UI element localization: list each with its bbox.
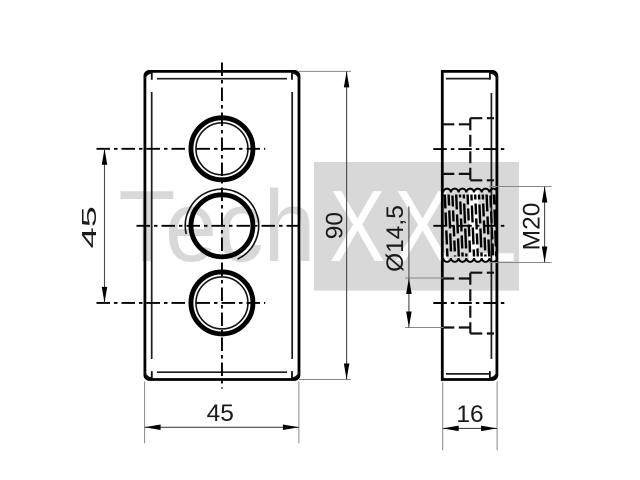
dim M20 extension bottom bbox=[489, 262, 552, 264]
side view corner relief top-right bbox=[490, 73, 497, 80]
front view plate outline bbox=[145, 71, 299, 379]
dim 90 extension top bbox=[299, 70, 351, 72]
dim 14.5 leader line bbox=[408, 207, 410, 328]
dim 90 line bbox=[346, 71, 348, 379]
hole 3 thick circle bbox=[191, 272, 253, 334]
hole 2 thick circle bbox=[191, 195, 253, 257]
side view hole 3 centerline bbox=[433, 302, 506, 304]
hole 2 horizontal centerline bbox=[137, 225, 302, 227]
dim 45 left arrow up bbox=[102, 149, 108, 165]
thread scallop top bbox=[443, 189, 497, 193]
hole 1 thick circle bbox=[191, 118, 253, 180]
front view corner relief bottom-right bbox=[292, 371, 299, 378]
front view corner relief top-left bbox=[145, 73, 152, 80]
thread scallop bottom bbox=[443, 258, 497, 262]
dim 14.5 extension top bbox=[405, 277, 444, 279]
hole 3 horizontal centerline bbox=[97, 302, 266, 304]
side view inner edge line right bbox=[490, 93, 492, 359]
dim 90 extension bottom bbox=[299, 379, 351, 381]
side view inner edge line top bbox=[446, 78, 489, 80]
svg-text:Tech: Tech bbox=[118, 171, 315, 283]
side view hole 2 centerline bbox=[433, 225, 506, 227]
dim 16 arrow right bbox=[481, 426, 497, 432]
front view inner edge line bottom bbox=[157, 371, 287, 373]
dim M20 arrow up bbox=[542, 187, 548, 203]
dim 16 extension right bbox=[496, 382, 498, 451]
front view inner edge line top bbox=[157, 78, 287, 80]
svg-text:45: 45 bbox=[207, 400, 234, 427]
front view corner relief top-right bbox=[292, 73, 299, 80]
dim 45 bottom extension left bbox=[144, 382, 146, 444]
hidden line hole 1 upper bbox=[442, 123, 470, 125]
dim 16 line bbox=[443, 427, 497, 429]
hidden line hole 1 bore upper bbox=[470, 117, 494, 119]
svg-text:M20: M20 bbox=[519, 203, 546, 251]
side view hole 1 centerline bbox=[433, 148, 506, 150]
dim 16 extension left bbox=[442, 382, 444, 451]
hidden line hole 3 lower bbox=[442, 326, 470, 328]
side view corner relief bottom-right bbox=[490, 371, 497, 378]
dim M20 line bbox=[544, 187, 546, 263]
dim 45 bottom extension right bbox=[298, 382, 300, 444]
front view inner edge line left bbox=[151, 92, 153, 359]
dim 14.5 arrow up bbox=[406, 278, 412, 294]
side view outline bbox=[442, 71, 497, 379]
hidden line hole 3 bore vertical bbox=[469, 273, 471, 334]
dim 45 bottom line bbox=[145, 426, 299, 428]
thread hatch texture bbox=[445, 195, 496, 257]
hidden line hole 1 bore vertical bbox=[469, 118, 471, 180]
dim 14.5 extension bottom bbox=[405, 327, 444, 329]
side view inner edge line bottom bbox=[446, 373, 490, 375]
dim 45 bottom arrow left bbox=[145, 425, 161, 431]
svg-text:90: 90 bbox=[321, 212, 348, 239]
dim 45 left line bbox=[104, 149, 106, 303]
svg-text:16: 16 bbox=[456, 401, 483, 428]
dim 45 bottom arrow right bbox=[283, 425, 299, 431]
hidden line hole 3 upper bbox=[442, 277, 470, 279]
dim 45 left arrow down bbox=[102, 287, 108, 303]
hole 3 chamfer thin circle bbox=[196, 277, 248, 329]
hidden line hole 3 bore lower bbox=[470, 332, 494, 334]
hidden line hole 3 bore upper bbox=[470, 272, 494, 274]
dim 16 arrow left bbox=[443, 426, 459, 432]
hole 1 horizontal centerline bbox=[97, 148, 266, 150]
svg-text:45: 45 bbox=[79, 206, 101, 248]
dim 90 arrow up bbox=[344, 71, 350, 87]
hole 2 thread arc bbox=[185, 189, 258, 259]
hole 1 chamfer thin circle bbox=[196, 123, 248, 175]
dim 90 arrow down bbox=[344, 364, 350, 380]
front view corner relief bottom-left bbox=[145, 371, 152, 378]
front view vertical centerline bbox=[221, 63, 223, 389]
hidden line hole 1 lower bbox=[442, 173, 470, 175]
front view inner edge line right bbox=[291, 92, 293, 359]
hidden line hole 1 bore lower bbox=[470, 179, 494, 181]
watermark gray block bbox=[314, 162, 519, 291]
svg-text:Ø14,5: Ø14,5 bbox=[382, 205, 409, 272]
dim 14.5 arrow down bbox=[406, 312, 412, 328]
dim M20 arrow down bbox=[542, 247, 548, 263]
dim M20 extension top bbox=[489, 186, 552, 188]
